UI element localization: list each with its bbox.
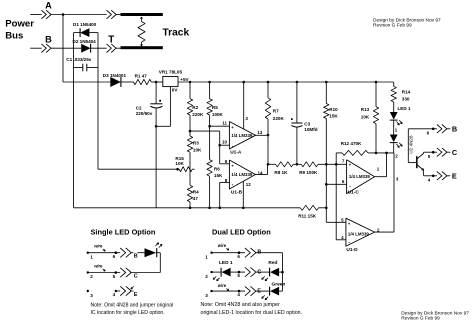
svg-text:1/4 LM339: 1/4 LM339	[231, 133, 253, 138]
svg-text:2: 2	[90, 274, 93, 279]
svg-text:original LED-1 location for du: original LED-1 location for dual LED opt…	[201, 310, 303, 316]
svg-text:U1-C: U1-C	[348, 189, 360, 195]
svg-text:R2: R2	[192, 105, 198, 110]
svg-text:B: B	[45, 34, 52, 44]
svg-text:U1-B: U1-B	[231, 190, 243, 196]
U1-B output wire up to comparator rail	[256, 174, 268, 176]
svg-text:R13: R13	[361, 107, 370, 112]
connector on A to track	[107, 10, 112, 19]
svg-text:13: 13	[257, 130, 263, 135]
U1-A power pin 3 from +5V	[243, 82, 245, 129]
svg-text:R7: R7	[273, 108, 279, 113]
U1-D output wire up to LED node	[375, 231, 394, 233]
svg-text:1/4 LM339: 1/4 LM339	[349, 174, 371, 179]
svg-text:E: E	[134, 292, 138, 298]
wire A with connector	[30, 14, 41, 16]
op-amp U1-A 1/4 LM339	[229, 122, 255, 150]
svg-text:15K: 15K	[329, 114, 338, 119]
svg-text:D1 1N5400: D1 1N5400	[73, 22, 97, 27]
wire R2/R3 junction to U1-A inverting input	[190, 130, 220, 132]
svg-text:Green: Green	[272, 281, 286, 287]
single option LED	[145, 248, 157, 257]
svg-text:R10: R10	[329, 107, 338, 112]
U2 collector to C	[423, 152, 425, 153]
svg-text:5: 5	[237, 273, 240, 278]
wire to U1-A non-inverting input	[210, 125, 230, 127]
svg-text:R1 47: R1 47	[135, 73, 148, 78]
svg-text:LED 1: LED 1	[219, 260, 233, 266]
svg-text:Note: Omit 4N28 and also jumpe: Note: Omit 4N28 and also jumper	[201, 302, 281, 308]
wire B right segment	[91, 47, 107, 49]
svg-text:B: B	[452, 124, 457, 133]
svg-text:wire: wire	[218, 283, 227, 288]
svg-text:5: 5	[113, 274, 116, 279]
svg-text:B: B	[134, 254, 138, 260]
U2 emitter to E	[423, 170, 425, 176]
svg-text:wire: wire	[218, 243, 227, 248]
dual option row B	[210, 252, 212, 254]
single option row B	[87, 252, 89, 254]
svg-text:C1 .033/25v: C1 .033/25v	[66, 57, 91, 62]
svg-text:Track: Track	[163, 27, 190, 38]
svg-text:R11 15K: R11 15K	[298, 214, 317, 219]
opto internal LED	[393, 120, 395, 134]
svg-text:U1-D: U1-D	[346, 247, 358, 253]
svg-text:R5: R5	[212, 105, 218, 110]
svg-text:10Mfd: 10Mfd	[304, 127, 317, 132]
svg-text:6: 6	[113, 254, 116, 259]
svg-text:6: 6	[237, 254, 240, 259]
wire U1-B pin 8 to ground	[220, 181, 230, 183]
svg-text:R14: R14	[402, 90, 411, 95]
U1-C output wire up to LED node	[375, 176, 387, 178]
svg-text:Note: Omit 4N28 and jumper ori: Note: Omit 4N28 and jumper original	[91, 303, 174, 309]
svg-text:Power: Power	[5, 18, 34, 29]
op-amp U1-D 1/4 LM339	[346, 218, 375, 246]
vertical from R12/pin7 node down to U1-D pin 4	[335, 153, 337, 240]
wire pin6 to B connector	[408, 128, 437, 130]
svg-text:10K: 10K	[361, 114, 370, 119]
svg-text:R6: R6	[214, 166, 220, 171]
svg-text:220K: 220K	[192, 112, 204, 117]
wire B with connector	[30, 47, 41, 49]
single option row E	[87, 290, 89, 292]
svg-text:10K: 10K	[175, 161, 184, 166]
right vertical of diode box down to R15 wire	[97, 33, 99, 170]
dual option row E with green LED	[210, 290, 212, 292]
wheelset axle across track	[138, 22, 145, 43]
svg-text:15K: 15K	[214, 173, 223, 178]
svg-text:Revison G Feb 99: Revison G Feb 99	[373, 23, 412, 29]
svg-text:100K: 100K	[212, 112, 224, 117]
0V wire from regulator to C2	[169, 87, 171, 127]
svg-text:47: 47	[193, 196, 199, 201]
svg-text:12: 12	[246, 182, 252, 187]
wire to U1-C pin 6	[326, 183, 346, 185]
left vertical of diode box down to ground rail	[73, 33, 75, 208]
U1-B ground pin 12	[242, 182, 244, 208]
LED cathode node wire	[368, 152, 394, 154]
svg-text:wire: wire	[94, 264, 103, 269]
vertical from R10 through reference node down to U1-D pin 5	[325, 119, 327, 223]
svg-text:VR1 78L05: VR1 78L05	[159, 70, 183, 75]
svg-text:3: 3	[205, 293, 208, 298]
wire to U1-B pin 9	[220, 163, 230, 165]
svg-text:U2 4N28: U2 4N28	[408, 135, 413, 154]
svg-text:A: A	[45, 1, 52, 11]
svg-text:10: 10	[222, 140, 228, 145]
U1-A output wire	[256, 134, 269, 136]
svg-text:E: E	[452, 171, 457, 180]
track bottom rail	[121, 46, 163, 49]
svg-text:220/50v: 220/50v	[136, 111, 153, 116]
svg-text:1: 1	[90, 254, 93, 259]
svg-text:LED 1: LED 1	[398, 106, 411, 111]
op-amp U1-C 1/4 LM339	[347, 160, 375, 194]
U2 base wire from pin 6	[407, 129, 409, 163]
svg-text:Revison G Feb 99: Revison G Feb 99	[401, 315, 440, 321]
svg-text:1/4 LM339: 1/4 LM339	[231, 172, 253, 177]
svg-text:R12 470K: R12 470K	[341, 141, 362, 146]
svg-text:1/4 LM339: 1/4 LM339	[348, 231, 370, 236]
svg-text:Design by Dick Bronson Nov 97: Design by Dick Bronson Nov 97	[401, 310, 469, 316]
svg-text:wire: wire	[94, 244, 103, 249]
wire R9 to U1-C pin 7	[318, 163, 347, 165]
svg-text:Red: Red	[268, 260, 277, 266]
svg-text:2: 2	[205, 274, 208, 279]
svg-text:IC location for single LED opt: IC location for single LED option.	[91, 310, 165, 316]
single option row C	[87, 271, 89, 273]
svg-text:Design by Dick Bronson Nov 97: Design by Dick Bronson Nov 97	[373, 17, 441, 23]
svg-text:Bus: Bus	[5, 31, 23, 42]
svg-text:+5V: +5V	[180, 77, 189, 82]
U2 transistor	[416, 156, 418, 168]
wire from A down to D3	[62, 13, 65, 16]
dual option row C with LED 1	[210, 271, 212, 273]
connector on B to track	[107, 44, 112, 53]
svg-text:0V: 0V	[172, 88, 179, 93]
svg-text:C: C	[452, 148, 458, 157]
svg-text:R3: R3	[193, 141, 199, 146]
dual option right edge wire	[282, 253, 284, 291]
svg-text:T: T	[108, 34, 114, 45]
LED 1 pointing left	[220, 268, 222, 277]
svg-text:R9 100K: R9 100K	[299, 170, 318, 175]
svg-text:3: 3	[90, 293, 93, 298]
+5V rail	[178, 81, 394, 83]
svg-text:D2 1N5404: D2 1N5404	[73, 39, 97, 44]
op-amp U1-B 1/4 LM339	[229, 160, 255, 189]
single option right edge wire	[159, 253, 161, 273]
svg-text:U1-A: U1-A	[230, 150, 242, 156]
svg-text:330: 330	[402, 97, 410, 102]
svg-text:C3: C3	[304, 121, 310, 126]
svg-text:10K: 10K	[193, 148, 202, 153]
svg-text:1: 1	[205, 254, 208, 259]
ground rail	[74, 207, 301, 209]
track top rail	[121, 13, 163, 16]
svg-text:Dual LED Option: Dual LED Option	[212, 228, 271, 237]
svg-text:220K: 220K	[273, 116, 285, 121]
svg-text:R8 1K: R8 1K	[274, 170, 288, 175]
svg-text:R4: R4	[193, 189, 199, 194]
svg-text:4: 4	[237, 292, 240, 297]
svg-text:4: 4	[113, 292, 116, 297]
svg-text:11: 11	[222, 121, 227, 126]
svg-text:C: C	[134, 274, 138, 280]
svg-text:D3 1N4001: D3 1N4001	[103, 73, 127, 78]
svg-text:Single LED Option: Single LED Option	[91, 228, 156, 237]
